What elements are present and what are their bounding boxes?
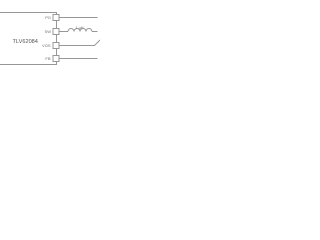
svg-text:1 µH: 1 µH [75, 26, 83, 30]
svg-text:TLV62084: TLV62084 [13, 39, 38, 45]
pin PG box [53, 15, 59, 21]
IC U1 TLV62084 outline (left edge cropped) [0, 13, 57, 65]
wire PG net [59, 17, 98, 19]
svg-text:SW: SW [45, 29, 52, 34]
pin FB box [53, 56, 59, 62]
inductor L1 [68, 29, 92, 32]
svg-text:VOS: VOS [42, 43, 51, 48]
svg-text:PG: PG [45, 15, 51, 20]
wire FB net [59, 58, 98, 60]
svg-text:FB: FB [45, 56, 50, 61]
pin SW box [53, 29, 59, 35]
wire inductor to VOUT [92, 31, 98, 33]
wire SW to inductor [59, 31, 68, 33]
pin VOS box [53, 43, 59, 49]
wire VOS net [59, 40, 100, 46]
